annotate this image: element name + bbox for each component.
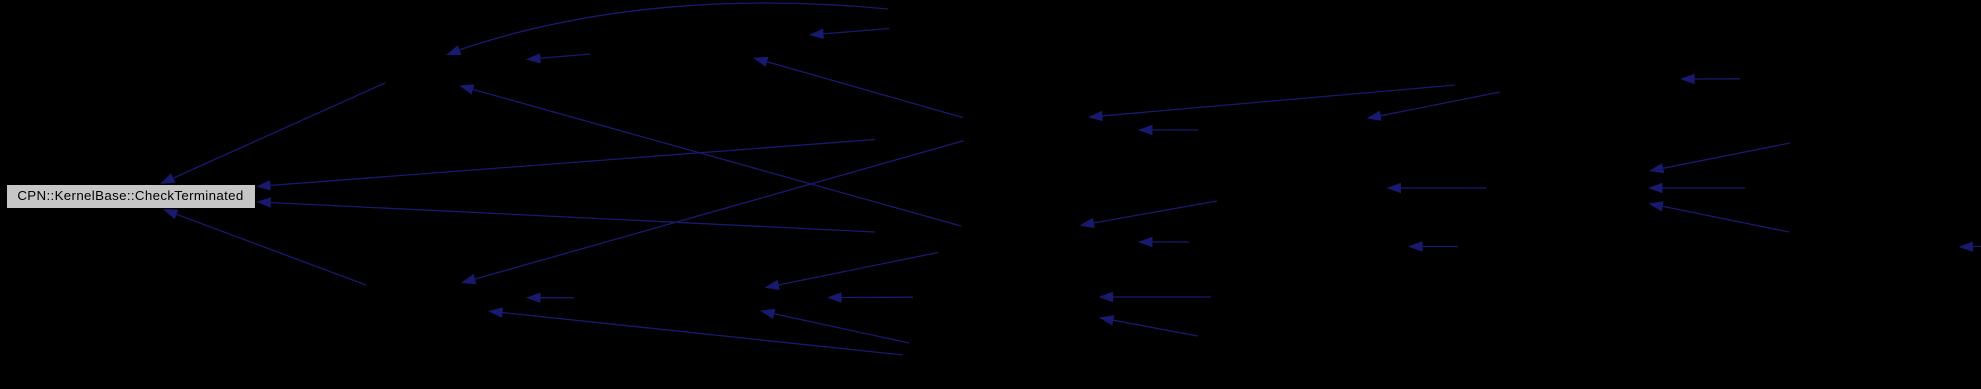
edge E6 into box top: arrowhead: [160, 173, 175, 184]
edge E13: wire: [1692, 78, 1741, 80]
edge E3: wire: [821, 29, 890, 35]
edge E32: wire: [1110, 320, 1198, 336]
edge E21: wire: [1150, 241, 1190, 243]
edge E28 long bottom: wire: [499, 312, 903, 355]
edge E8: wire: [1100, 85, 1456, 116]
edge E30: arrowhead: [827, 292, 842, 302]
edge E25: wire: [1420, 246, 1459, 248]
edge E30: wire: [839, 296, 914, 298]
edge E16 into box bottom: arrowhead: [163, 209, 178, 219]
edge E20: wire: [1091, 201, 1217, 224]
edge E16 into box bottom: wire: [174, 213, 366, 285]
edge E1 top curve: wire: [449, 3, 888, 53]
edge E5 long diagonal: arrowhead: [459, 84, 474, 94]
edge E24: arrowhead: [1649, 201, 1664, 211]
edge E10: wire: [1378, 92, 1500, 116]
edge E26 at right image edge: wire: [1970, 245, 1981, 247]
edge E11: arrowhead: [1649, 163, 1664, 173]
edge E20: arrowhead: [1080, 218, 1095, 228]
edge E22: arrowhead: [1387, 183, 1402, 193]
edge E29: wire: [771, 313, 909, 343]
edge E31: wire: [1110, 296, 1211, 298]
edge E14 into box right upper: wire: [268, 140, 876, 186]
edge E3: arrowhead: [809, 29, 824, 39]
edge E4: wire: [764, 61, 963, 118]
node CPN::KernelBase::CheckTerminated (main grey node): [6, 184, 256, 209]
edge E6 into box top: wire: [171, 83, 386, 179]
edge E25: arrowhead: [1408, 241, 1423, 251]
edge E2 short arrow upper-left: wire: [538, 54, 591, 59]
edge E13: arrowhead: [1680, 74, 1695, 84]
edge E19: arrowhead: [765, 280, 780, 290]
edge E7 long diagonal down: arrowhead: [461, 274, 476, 284]
edge E22: wire: [1398, 187, 1486, 189]
edge E28 long bottom: arrowhead: [488, 307, 503, 317]
edge E29: arrowhead: [760, 309, 775, 319]
edge E26 at right image edge: arrowhead: [1959, 241, 1974, 251]
edge E14 into box right upper: arrowhead: [256, 180, 271, 190]
edge E32: arrowhead: [1099, 315, 1114, 325]
edge E24: wire: [1660, 206, 1789, 232]
edge E9: arrowhead: [1138, 125, 1153, 135]
edge E12: wire: [1660, 187, 1746, 189]
edge E31: arrowhead: [1099, 292, 1114, 302]
edge E5 long diagonal: wire: [470, 89, 961, 226]
edge E9: wire: [1150, 129, 1199, 131]
edge E21: arrowhead: [1138, 237, 1153, 247]
edge E15 into box right lower: arrowhead: [256, 197, 271, 207]
edge E2 short arrow upper-left: arrowhead: [526, 53, 541, 63]
edge E19: wire: [776, 253, 938, 286]
edge E12: arrowhead: [1648, 183, 1663, 193]
edge E10: arrowhead: [1367, 111, 1382, 121]
edge E4: arrowhead: [753, 57, 768, 67]
edge E7 long diagonal down: wire: [472, 141, 963, 280]
edge E27: arrowhead: [526, 293, 541, 303]
edge E8: arrowhead: [1088, 111, 1103, 121]
edge E11: wire: [1660, 143, 1790, 169]
edge E1 top curve: arrowhead: [446, 45, 461, 55]
edge E27: wire: [538, 297, 575, 299]
edge E15 into box right lower: wire: [268, 202, 875, 232]
